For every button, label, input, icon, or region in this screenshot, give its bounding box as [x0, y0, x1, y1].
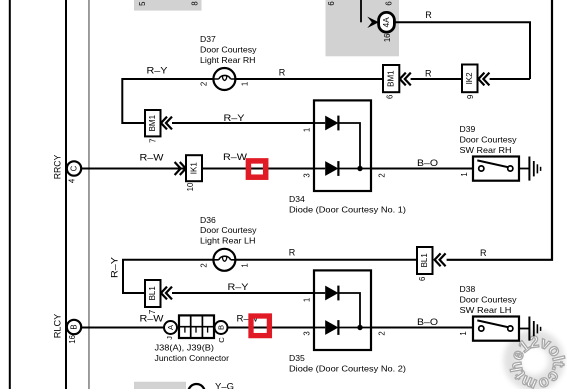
relay block top-right (cut off) — [326, 0, 400, 56]
diode D35-2 — [314, 320, 338, 335]
svg-text:3: 3 — [303, 173, 312, 177]
wire D39 to ground — [519, 168, 529, 170]
connector BL1(7) — [145, 280, 161, 307]
svg-text:2: 2 — [200, 82, 209, 86]
wire D34 internal out — [338, 168, 371, 170]
shield line (gray) — [88, 0, 90, 389]
diode D35-1 — [314, 286, 338, 301]
svg-text:D38: D38 — [460, 284, 476, 294]
wire RLCY row — [81, 327, 164, 329]
switch D39 Door Courtesy SW Rear RH — [473, 157, 519, 181]
wire BM1(7) to D34 pin1 — [172, 122, 314, 124]
svg-text:SW Rear LH: SW Rear LH — [460, 305, 512, 315]
wire direction arrow — [367, 17, 379, 28]
svg-text:2: 2 — [200, 263, 209, 267]
svg-text:16: 16 — [68, 335, 77, 344]
wire R from 4A — [395, 22, 530, 79]
node C (RRCY) — [67, 161, 81, 175]
lamp D36 Door Courtesy Light Rear LH — [213, 249, 235, 271]
lamp (cut off, next section) — [188, 384, 205, 389]
watermark the12volt.com — [507, 333, 567, 389]
svg-text:B: B — [70, 324, 79, 329]
svg-text:BM1: BM1 — [387, 70, 396, 87]
wire row to IK2 — [490, 78, 530, 80]
svg-text:B: B — [217, 325, 226, 330]
svg-text:6: 6 — [327, 1, 336, 5]
svg-text:B–O: B–O — [417, 317, 438, 327]
svg-text:4: 4 — [68, 178, 77, 183]
svg-text:R: R — [425, 68, 432, 78]
junction dot — [357, 166, 362, 171]
svg-text:1: 1 — [241, 263, 250, 267]
red highlight box 1 — [248, 161, 265, 177]
svg-text:2: 2 — [378, 173, 387, 177]
svg-text:5: 5 — [138, 1, 147, 6]
junction dot — [357, 325, 362, 330]
svg-text:Y–G: Y–G — [215, 381, 234, 389]
svg-text:Diode (Door Courtesy No. 2): Diode (Door Courtesy No. 2) — [289, 363, 406, 373]
svg-text:J38(A), J39(B): J38(A), J39(B) — [155, 343, 215, 353]
svg-text:R–W: R–W — [140, 152, 165, 162]
wire lamp D37 to BM1 — [235, 78, 383, 80]
wire R between BM1 and IK2 — [411, 78, 462, 80]
connector BL1(6) — [417, 247, 433, 274]
wire into 4A — [360, 0, 362, 22]
svg-text:8: 8 — [191, 1, 200, 5]
ground (D38) — [529, 317, 540, 341]
svg-text:R: R — [289, 248, 296, 258]
svg-text:1: 1 — [241, 82, 250, 86]
svg-text:R–Y: R–Y — [110, 257, 120, 278]
svg-text:1: 1 — [303, 128, 312, 132]
svg-text:7: 7 — [149, 139, 158, 143]
svg-text:Diode (Door Courtesy No. 1): Diode (Door Courtesy No. 1) — [289, 204, 406, 214]
connector BM1(7) arrows — [161, 117, 172, 130]
svg-text:R: R — [425, 10, 432, 20]
diode D34-1 — [314, 116, 338, 131]
svg-text:IK2: IK2 — [465, 72, 474, 85]
svg-text:R–Y: R–Y — [228, 282, 249, 292]
wire lamp D36 to BL1(7) — [123, 260, 213, 293]
svg-text:1: 1 — [303, 298, 312, 302]
ground (D39) — [529, 157, 540, 181]
svg-text:Light Rear LH: Light Rear LH — [200, 236, 256, 246]
svg-text:Junction Connector: Junction Connector — [155, 353, 230, 363]
svg-text:16: 16 — [383, 33, 392, 42]
wire RRCY row — [81, 168, 314, 170]
diode pack D34 — [314, 100, 371, 191]
partial component top-left (cut off) — [134, 0, 202, 11]
junction connector box — [179, 315, 214, 338]
node B (junction) — [215, 321, 228, 334]
connector BL1(7) arrows — [161, 287, 172, 300]
svg-text:3: 3 — [303, 331, 312, 335]
connector IK1 arrows — [175, 162, 186, 175]
frame line left — [9, 0, 11, 389]
svg-text:R–W: R–W — [223, 152, 248, 162]
svg-text:BM1: BM1 — [148, 114, 157, 131]
wire D35 internal out — [338, 327, 371, 329]
wire D34 internal — [338, 123, 360, 169]
node B (RLCY) — [67, 320, 81, 334]
red highlight box 2 — [251, 316, 269, 336]
connector IK1 — [186, 155, 202, 181]
junction connector J38/J39 — [164, 321, 177, 334]
connector BM1(7) — [145, 110, 161, 136]
svg-text:C: C — [70, 165, 79, 171]
svg-text:1: 1 — [459, 331, 468, 335]
svg-text:1: 1 — [460, 172, 469, 176]
wire lamp D36 to BL1(6) — [235, 259, 417, 261]
svg-text:6: 6 — [418, 277, 427, 281]
svg-text:R: R — [480, 248, 487, 258]
svg-text:D36: D36 — [200, 215, 216, 225]
svg-text:D34: D34 — [289, 194, 305, 204]
connector BL1(6) arrows — [435, 253, 446, 266]
wire BL1(7) to D35 pin1 — [172, 292, 314, 294]
diode D34-2 — [314, 161, 338, 176]
svg-text:Door Courtesy: Door Courtesy — [460, 294, 518, 304]
svg-text:Door Courtesy: Door Courtesy — [200, 44, 257, 54]
connector BM1(6) — [383, 65, 399, 92]
wire D35 to D38 — [371, 327, 473, 329]
svg-text:R–Y: R–Y — [147, 65, 168, 75]
svg-text:B–O: B–O — [417, 158, 438, 168]
vertical bus wire (RRCY/RLCY column) — [65, 0, 67, 389]
lamp D37 Door Courtesy Light Rear RH — [213, 68, 235, 90]
svg-text:C: C — [217, 337, 226, 343]
svg-text:9: 9 — [466, 95, 475, 99]
svg-text:RRCY: RRCY — [53, 155, 63, 180]
svg-text:6: 6 — [385, 95, 394, 99]
svg-text:Door Courtesy: Door Courtesy — [460, 134, 518, 144]
diode pack D35 — [314, 270, 371, 350]
svg-text:BL1: BL1 — [148, 286, 157, 301]
svg-text:R–Y: R–Y — [224, 113, 245, 123]
wire D35 internal — [338, 293, 360, 328]
svg-text:J: J — [165, 336, 174, 340]
wire lamp D37 to BM1(7) — [122, 79, 213, 123]
switch D38 Door Courtesy SW Rear LH — [473, 317, 519, 341]
svg-text:R–W: R–W — [140, 314, 165, 324]
svg-text:IK1: IK1 — [190, 162, 199, 175]
wire D38 to ground — [519, 328, 529, 330]
wire D34 to D39 — [371, 168, 473, 170]
svg-text:Door Courtesy: Door Courtesy — [200, 225, 257, 235]
svg-text:D39: D39 — [460, 124, 476, 134]
svg-text:R: R — [279, 67, 286, 77]
connector IK2 — [462, 65, 478, 93]
svg-text:6: 6 — [385, 1, 394, 5]
wire junction to D35 pin3 — [228, 327, 315, 329]
svg-text:BL1: BL1 — [420, 253, 429, 268]
partial component bottom (cut off) — [134, 382, 186, 389]
svg-text:10: 10 — [186, 182, 195, 191]
svg-text:2: 2 — [378, 331, 387, 335]
svg-text:Light Rear RH: Light Rear RH — [200, 55, 256, 65]
svg-text:4A: 4A — [382, 17, 391, 28]
connector IK2 arrows — [478, 73, 489, 86]
wire from top (R) down right side — [447, 0, 552, 260]
svg-text:D37: D37 — [200, 34, 216, 44]
svg-text:SW Rear RH: SW Rear RH — [460, 145, 512, 155]
connector 4A — [379, 12, 395, 32]
svg-text:RLCY: RLCY — [53, 314, 63, 339]
connector BM1(6) arrows — [400, 73, 411, 86]
svg-text:D35: D35 — [289, 353, 305, 363]
